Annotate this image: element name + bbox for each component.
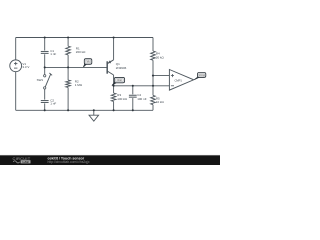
svg-text:SW1: SW1 [37, 78, 44, 82]
svg-text:LAB: LAB [22, 160, 29, 164]
svg-text:Vcmp: Vcmp [199, 75, 206, 77]
svg-text:100 kΩ: 100 kΩ [117, 97, 127, 101]
svg-text:VA: VA [87, 60, 90, 63]
svg-text:1 nF: 1 nF [50, 101, 56, 105]
svg-text:1 MΩ: 1 MΩ [75, 83, 83, 87]
svg-text:10 kΩ: 10 kΩ [156, 100, 165, 104]
svg-text:1 nF: 1 nF [50, 52, 56, 56]
svg-text:2N3906: 2N3906 [116, 66, 127, 70]
svg-text:100 nF: 100 nF [137, 97, 147, 101]
svg-text:http://circuitlab.com/c/hs2qjx: http://circuitlab.com/c/hs2qjx [48, 160, 90, 164]
svg-text:CMP1: CMP1 [174, 79, 182, 83]
svg-text:20 kΩ: 20 kΩ [156, 55, 165, 59]
svg-text:3.3 V: 3.3 V [22, 65, 29, 69]
svg-text:Vout: Vout [117, 79, 122, 82]
svg-text:200 kΩ: 200 kΩ [76, 50, 86, 54]
